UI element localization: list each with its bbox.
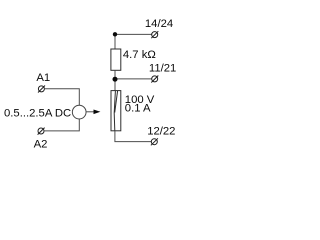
terminal 11/21 [151, 76, 158, 83]
svg-text:14/24: 14/24 [145, 18, 173, 30]
svg-text:A1: A1 [36, 72, 50, 84]
svg-text:A2: A2 [34, 138, 48, 150]
actuation arrow head [94, 110, 101, 115]
resistor R 4.7k body [111, 49, 121, 70]
terminal A1 [38, 86, 45, 93]
junction node at 11/21 [113, 77, 118, 82]
terminal A2 [38, 128, 45, 135]
contact main line inside box [114, 91, 115, 131]
measuring transducer circle [72, 105, 86, 119]
wire: box bottom to 12/22 row [115, 131, 151, 142]
svg-text:12/22: 12/22 [147, 126, 175, 138]
wire: 14/24 row horizontal [115, 33, 152, 35]
actuation arrow shaft [86, 111, 94, 113]
wire: top vertical to resistor [114, 34, 116, 49]
wire: resistor bottom to contact box top [114, 70, 116, 90]
terminal 12/22 [151, 138, 158, 145]
svg-text:11/21: 11/21 [149, 62, 176, 74]
junction dot at top corner [113, 32, 117, 36]
contact blade stub inside box [115, 91, 118, 113]
svg-text:4.7 kΩ: 4.7 kΩ [123, 49, 156, 61]
contact box (output element) [111, 91, 121, 131]
svg-text:0.1 A: 0.1 A [125, 103, 151, 115]
wire: 11/21 row horizontal [115, 78, 152, 80]
wire: A2 to measuring circle [44, 119, 79, 131]
wire: A1 to measuring circle [44, 89, 79, 106]
svg-text:0.5...2.5A DC: 0.5...2.5A DC [4, 108, 71, 120]
terminal 14/24 [151, 31, 158, 38]
